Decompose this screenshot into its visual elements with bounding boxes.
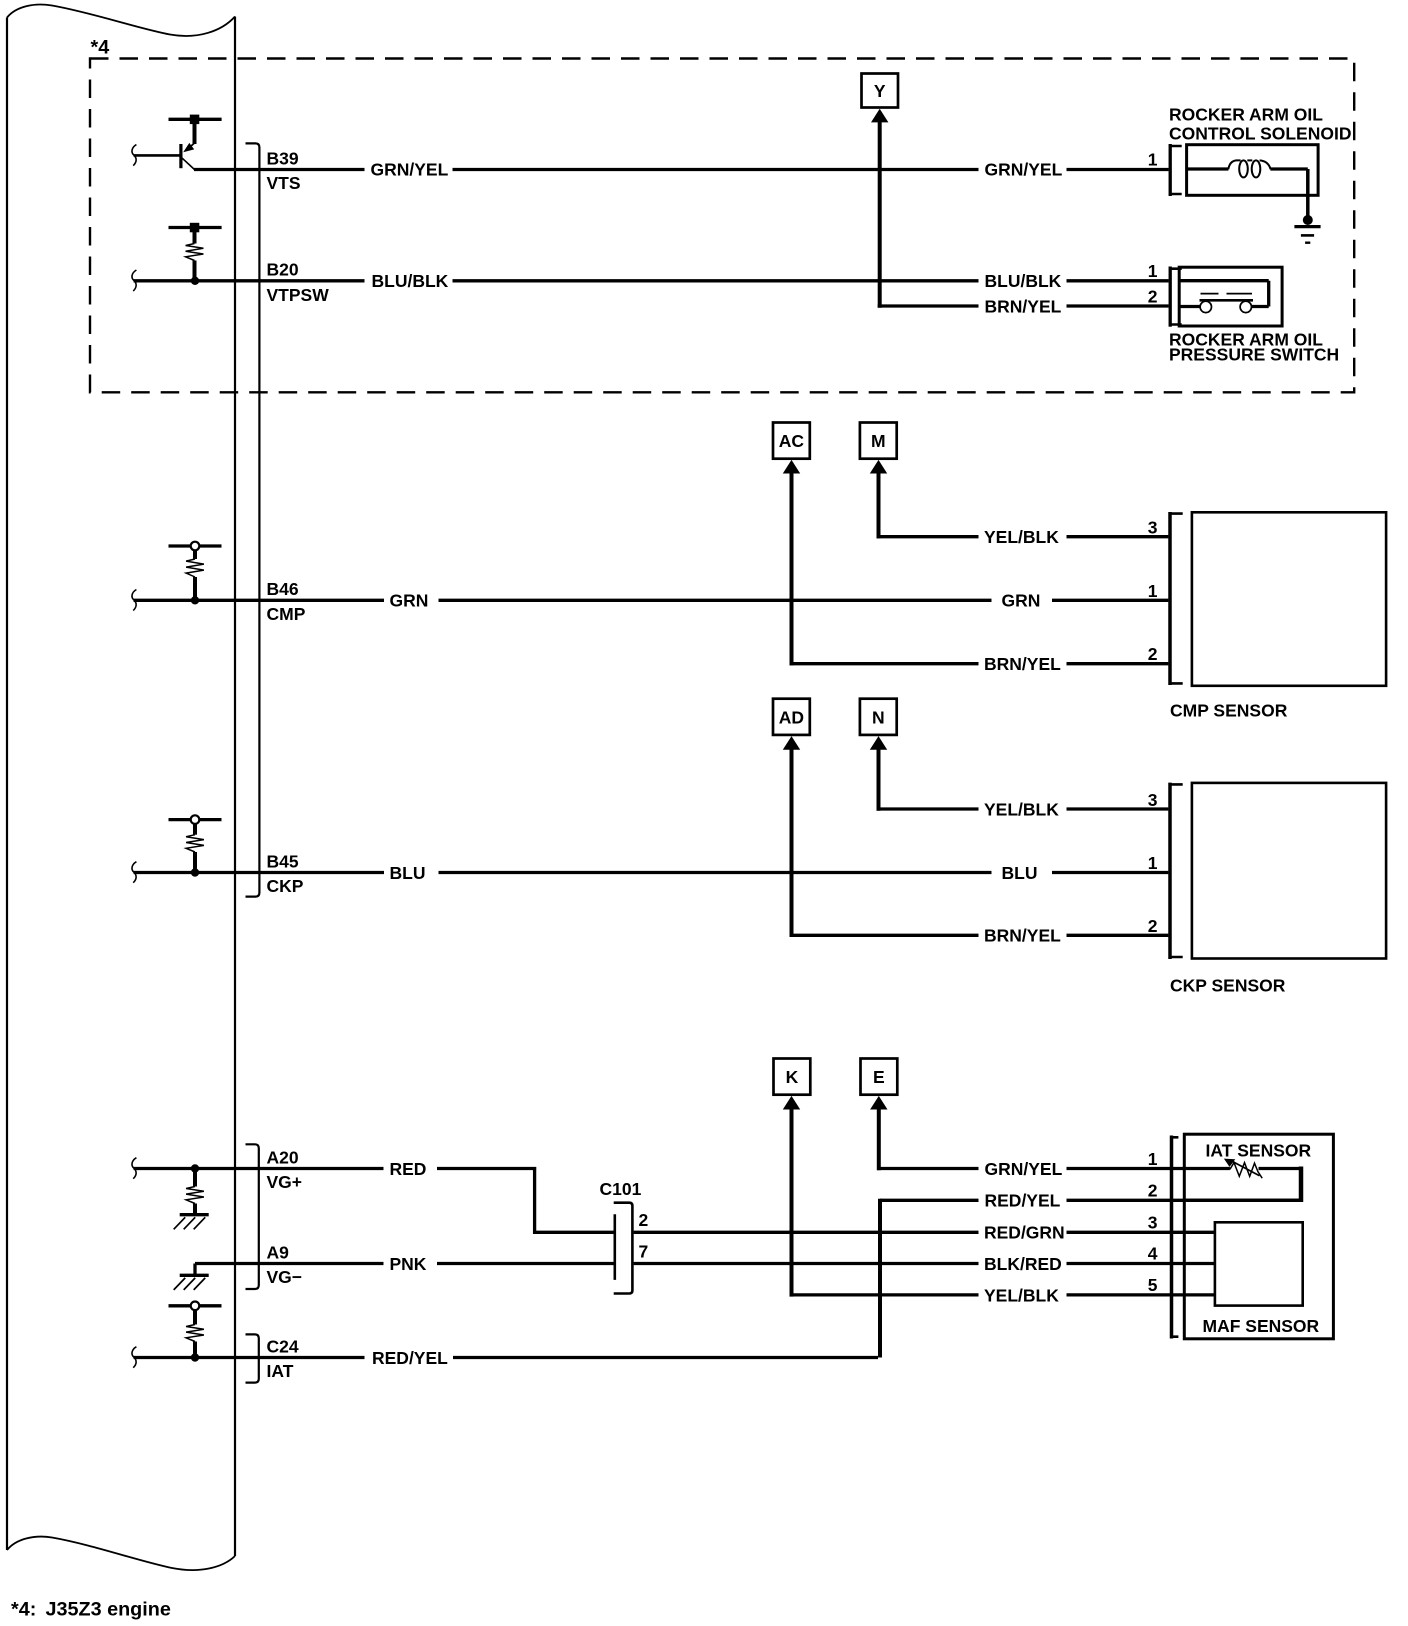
svg-text:B20: B20	[267, 260, 299, 280]
A9 sensor ground wire with chassis ground	[195, 1262, 614, 1265]
ECM right edge	[234, 17, 236, 1557]
svg-text:A20: A20	[267, 1147, 299, 1167]
arrow to Y	[871, 109, 888, 123]
svg-text:VTPSW: VTPSW	[267, 285, 330, 305]
arrow to K	[783, 1096, 800, 1110]
riser wire from YEL/BLK up to K	[790, 1102, 794, 1297]
CKP sensor box	[1192, 783, 1386, 959]
svg-text:2: 2	[1148, 644, 1158, 664]
svg-text:Y: Y	[874, 81, 886, 101]
svg-text:B45: B45	[267, 851, 299, 871]
riser wire from YEL/BLK up to N	[877, 742, 881, 811]
chassis ground below A20 resistor	[180, 1213, 209, 1216]
C101 male bar	[613, 1214, 616, 1280]
wire YEL/BLK to MAF pin 5	[790, 1293, 1216, 1296]
svg-text:GRN/YEL: GRN/YEL	[371, 160, 449, 180]
svg-text:1: 1	[1148, 261, 1158, 281]
svg-text:3: 3	[1148, 790, 1158, 810]
svg-text:1: 1	[1148, 149, 1158, 169]
svg-text:1: 1	[1148, 581, 1158, 601]
riser wire from BRN/YEL up to AD	[790, 742, 794, 937]
svg-text:BLU: BLU	[390, 863, 426, 883]
svg-text:3: 3	[1148, 518, 1158, 538]
svg-text:N: N	[872, 707, 885, 727]
svg-text:BLK/RED: BLK/RED	[984, 1254, 1062, 1274]
A20 sense ground resistor inside ECM	[186, 1172, 204, 1215]
wire YEL/BLK to CKP pin 3	[877, 807, 1169, 810]
svg-text:CMP SENSOR: CMP SENSOR	[1170, 700, 1288, 720]
svg-text:1: 1	[1148, 853, 1158, 873]
svg-text:GRN/YEL: GRN/YEL	[985, 1159, 1063, 1179]
ECM left torn strip edge	[6, 18, 8, 1551]
rocker arm oil pressure switch box	[1179, 267, 1282, 326]
IAT hairpin wire pin1 to pin2	[1259, 1167, 1300, 1170]
transistor (VTS driver, PNP) inside ECM	[169, 115, 222, 170]
wire YEL/BLK to CMP pin 3	[877, 535, 1169, 538]
dashed option box *4	[90, 59, 1354, 393]
switch contact circles	[1200, 301, 1211, 312]
pigtail curl C24	[132, 1347, 136, 1368]
switch internal wiring	[1179, 281, 1269, 307]
earth ground symbol	[1294, 225, 1320, 228]
switch actuation dashes	[1201, 293, 1253, 295]
MAF/IAT sensor outer box	[1184, 1134, 1333, 1339]
svg-text:CONTROL SOLENOID: CONTROL SOLENOID	[1169, 124, 1351, 144]
svg-text:2: 2	[639, 1210, 649, 1230]
arrow to AD	[783, 736, 800, 750]
switch blade	[1200, 299, 1254, 302]
connector ref box AC	[773, 423, 810, 459]
svg-text:B39: B39	[267, 148, 299, 168]
IAT thermistor zigzag	[1230, 1163, 1262, 1179]
pigtail curl B45	[132, 862, 136, 883]
IAT/MAF connector bracket	[1170, 1136, 1174, 1339]
pigtail curl B39 base	[132, 145, 136, 166]
svg-text:1: 1	[1148, 1149, 1158, 1169]
ECM connector B bracket	[246, 143, 260, 896]
svg-text:5: 5	[1148, 1275, 1158, 1295]
B46 sensor supply resistor inside ECM	[169, 542, 222, 597]
connector ref box AD	[773, 699, 810, 735]
wire BRN/YEL to CKP pin 2	[790, 934, 1169, 937]
svg-text:4: 4	[1148, 1244, 1158, 1264]
solenoid internal wire	[1187, 167, 1308, 170]
svg-text:C101: C101	[600, 1179, 642, 1199]
arrow to E	[870, 1096, 887, 1110]
svg-text:RED/YEL: RED/YEL	[372, 1348, 448, 1368]
CKP sensor connector bracket	[1168, 783, 1172, 959]
riser wire from YEL/BLK up to M	[877, 466, 881, 538]
arrow to N	[870, 736, 887, 750]
connector ref box N	[860, 699, 897, 735]
solenoid connector bracket	[1169, 144, 1172, 196]
svg-text:B46: B46	[267, 579, 299, 599]
pigtail curl B20	[132, 270, 136, 291]
svg-text:BRN/YEL: BRN/YEL	[984, 654, 1061, 674]
svg-text:2: 2	[1148, 286, 1158, 306]
riser wire from BRN/YEL up to Y	[878, 115, 882, 308]
svg-text:YEL/BLK: YEL/BLK	[984, 799, 1059, 819]
svg-text:AD: AD	[779, 707, 804, 727]
svg-text:PNK: PNK	[390, 1254, 427, 1274]
pigtail curl A20	[132, 1158, 136, 1179]
CMP sensor connector bracket	[1168, 512, 1172, 685]
svg-text:BLU/BLK: BLU/BLK	[372, 271, 449, 291]
riser wire RED/YEL from C24 row up to IAT pin 2 row	[878, 1199, 882, 1358]
junction dot A20	[191, 1164, 199, 1172]
ECM connector A bracket	[246, 1144, 259, 1289]
connector ref box K	[774, 1059, 811, 1095]
svg-text:A9: A9	[267, 1242, 290, 1262]
riser wire from BRN/YEL up to AC	[790, 466, 794, 665]
svg-text:RED: RED	[390, 1159, 427, 1179]
ECM top torn wavy edge	[7, 5, 235, 36]
svg-text:GRN/YEL: GRN/YEL	[985, 160, 1063, 180]
pressure switch connector bracket	[1169, 267, 1172, 327]
connector ref box M	[860, 423, 897, 459]
svg-text:YEL/BLK: YEL/BLK	[984, 1285, 1059, 1305]
C24 IAT signal resistor inside ECM	[169, 1302, 222, 1354]
CMP sensor box	[1192, 512, 1386, 686]
svg-text:E: E	[873, 1067, 885, 1087]
svg-text:AC: AC	[779, 431, 805, 451]
ground dot	[1303, 215, 1313, 225]
wire B39 GRN/YEL row	[194, 168, 1169, 171]
connector ref box E	[861, 1059, 898, 1095]
solenoid coil	[1228, 160, 1270, 177]
RED wire drop to C101 pin 2	[535, 1167, 614, 1232]
IAT thermistor arrow	[1233, 1162, 1260, 1176]
svg-text:VG+: VG+	[267, 1172, 303, 1192]
svg-text:*4:: *4:	[11, 1599, 36, 1621]
svg-text:YEL/BLK: YEL/BLK	[984, 527, 1059, 547]
svg-text:CKP: CKP	[267, 876, 304, 896]
svg-text:ROCKER ARM OIL: ROCKER ARM OIL	[1169, 105, 1323, 125]
svg-text:J35Z3 engine: J35Z3 engine	[46, 1599, 171, 1621]
wire GRN/YEL to IAT pin 1	[877, 1167, 1230, 1170]
wire C24 RED/YEL row	[134, 1356, 878, 1359]
pull-up resistor for VTPSW inside ECM	[169, 223, 222, 278]
svg-text:C24: C24	[267, 1336, 299, 1356]
ECM bottom torn wavy edge	[7, 1537, 235, 1570]
wire RED/YEL to IAT pin 2	[880, 1199, 1301, 1202]
junction dot B20	[191, 277, 199, 285]
B45 sensor supply resistor inside ECM	[169, 815, 222, 869]
wire B20 BLU/BLK row	[134, 279, 1169, 282]
ECM connector C bracket	[246, 1334, 259, 1382]
svg-text:IAT SENSOR: IAT SENSOR	[1206, 1140, 1312, 1160]
svg-text:K: K	[786, 1067, 799, 1087]
arrow to AC	[783, 460, 800, 474]
C101 female bracket	[614, 1203, 633, 1294]
svg-text:BRN/YEL: BRN/YEL	[985, 296, 1062, 316]
junction dot B46	[191, 596, 199, 604]
svg-text:BRN/YEL: BRN/YEL	[984, 926, 1061, 946]
svg-text:3: 3	[1148, 1212, 1158, 1232]
riser wire from GRN/YEL up to E	[877, 1102, 881, 1170]
pigtail curl B46	[132, 590, 136, 611]
svg-text:CKP SENSOR: CKP SENSOR	[1170, 975, 1286, 995]
transistor base lead wire	[134, 154, 180, 157]
solenoid wire down to ground	[1306, 169, 1310, 218]
MAF inner box	[1215, 1222, 1303, 1305]
wire A20 RED row	[134, 1167, 536, 1170]
junction dot B45	[191, 868, 199, 876]
svg-text:BLU/BLK: BLU/BLK	[985, 271, 1062, 291]
wire BRN/YEL to pressure switch pin 2	[1067, 304, 1169, 307]
rocker arm oil control solenoid box	[1187, 145, 1319, 196]
wire B45 BLU row	[134, 871, 1169, 874]
svg-text:CMP: CMP	[267, 604, 306, 624]
wire BLK/RED C101 to MAF pin 4	[634, 1262, 1216, 1265]
svg-text:MAF SENSOR: MAF SENSOR	[1203, 1316, 1320, 1336]
svg-text:7: 7	[639, 1242, 649, 1262]
svg-text:BLU: BLU	[1002, 863, 1038, 883]
svg-text:RED/YEL: RED/YEL	[985, 1191, 1061, 1211]
svg-text:PRESSURE SWITCH: PRESSURE SWITCH	[1169, 344, 1339, 364]
svg-text:VG−: VG−	[267, 1267, 303, 1287]
svg-text:*4: *4	[91, 37, 110, 59]
junction dot C24	[191, 1353, 199, 1361]
wire BRN/YEL to CMP pin 2	[790, 662, 1169, 665]
svg-text:M: M	[871, 431, 886, 451]
svg-text:2: 2	[1148, 1181, 1158, 1201]
svg-text:IAT: IAT	[267, 1361, 294, 1381]
svg-text:RED/GRN: RED/GRN	[984, 1223, 1065, 1243]
svg-text:VTS: VTS	[267, 173, 301, 193]
svg-text:GRN: GRN	[390, 591, 429, 611]
arrow to M	[870, 460, 887, 474]
svg-text:GRN: GRN	[1002, 591, 1041, 611]
svg-text:2: 2	[1148, 916, 1158, 936]
connector ref box Y	[862, 74, 899, 108]
wire B46 GRN row	[134, 599, 1169, 602]
wire RED/GRN C101 to MAF pin 3	[634, 1231, 1216, 1234]
